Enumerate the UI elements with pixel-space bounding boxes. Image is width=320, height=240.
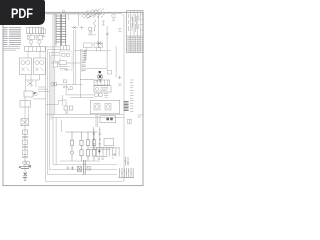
power stage top rail	[65, 131, 97, 133]
bottom center cluster small box with X	[67, 166, 82, 171]
heater X mark	[65, 111, 69, 115]
left chain top cluster	[24, 91, 33, 97]
driver block ticks	[101, 87, 109, 90]
terminal strip rungs	[83, 50, 87, 62]
small symbols top middle	[72, 21, 105, 30]
connector pin list lower rows	[4, 46, 21, 50]
tap L-wire 1	[46, 47, 61, 181]
breaker stub wire	[42, 34, 46, 37]
transistor block cells	[100, 148, 103, 157]
choke coil L2	[94, 20, 96, 32]
capacitor marks mid right	[83, 61, 86, 71]
connector pin list text block	[4, 27, 22, 44]
feed wire drop 1	[52, 14, 54, 165]
transistor block dark dot	[98, 150, 100, 152]
title block vertical text column D	[138, 15, 140, 29]
heater supply box b	[69, 106, 73, 110]
power rail bottom b	[60, 160, 100, 162]
chain element E4 mate	[26, 161, 30, 165]
title block cell divider row 2	[141, 19, 144, 21]
long wire rail mid a	[46, 113, 124, 115]
output stage lower box	[100, 116, 116, 123]
title block vertical text column C	[135, 14, 138, 32]
earth symbol left of combs	[112, 153, 116, 158]
corridor component pair	[51, 83, 54, 86]
bias box	[107, 70, 111, 74]
junction dot dark	[99, 71, 101, 73]
diagonal jumper wire	[87, 12, 103, 19]
title block revision table grid	[127, 36, 144, 53]
lower right transistor pair circles	[94, 93, 98, 97]
tap L-wire 3	[49, 53, 60, 170]
Q2 dark base blob	[99, 76, 101, 78]
tap L-wire 4	[51, 55, 60, 120]
bridge rectifier X	[21, 119, 29, 126]
driver row ticks	[98, 80, 108, 85]
crossover junction X	[27, 81, 33, 86]
driver block box	[94, 86, 111, 92]
driver row box	[94, 80, 109, 85]
fuse circle F1	[29, 40, 32, 43]
aux box lower marks	[59, 67, 70, 71]
small breaker box under badge corner	[42, 29, 46, 34]
indicator circle near frame	[112, 14, 116, 18]
power output column 1	[70, 132, 73, 161]
output stage inner circle a	[95, 105, 99, 109]
mains input box inner ticks	[30, 28, 42, 34]
chain bottom cluster	[19, 165, 31, 180]
title block cell divider row 3	[141, 23, 144, 25]
wire corner to bias box	[86, 68, 108, 70]
capacitor on wire b	[106, 33, 109, 35]
output lower dark rect b	[110, 118, 113, 121]
heater feed wire	[62, 95, 66, 106]
relay RL1 coil circle b	[26, 60, 30, 64]
title block cell divider row 4	[141, 29, 144, 31]
upper separator rail	[74, 50, 111, 52]
sheet outer border frame	[3, 12, 143, 185]
corridor vertical extra b	[61, 120, 63, 132]
chain element E3	[23, 150, 28, 155]
title block column line 2	[133, 11, 135, 53]
long vertical wire a	[98, 14, 100, 48]
rectifier box 2	[94, 43, 103, 48]
left chain cluster circle	[34, 92, 38, 96]
dense connector stripes	[124, 102, 129, 111]
transistor Q2 with arrow	[97, 74, 103, 80]
pilot lamp circle 2	[87, 15, 90, 18]
title block parts list text column	[130, 80, 134, 111]
pilot lamp circle	[83, 15, 86, 18]
long vertical wire c	[115, 46, 117, 78]
fan wires right	[107, 148, 120, 157]
driver block circle	[95, 87, 98, 90]
wires from choke to relays	[28, 51, 40, 58]
bottom small boxes right of cluster	[87, 167, 91, 171]
short drop from rail	[68, 14, 78, 26]
secondary tap box below transformer	[61, 46, 70, 50]
sheet note mark near right border	[138, 115, 143, 117]
power output column 3	[86, 132, 89, 161]
short rail right column	[88, 34, 96, 36]
title block cell divider row 1	[141, 14, 144, 16]
power rail bottom a	[53, 164, 117, 166]
link wire chain to corridor	[33, 98, 46, 100]
relay RL1 coil circle a	[21, 60, 25, 64]
chain element E2	[23, 140, 28, 145]
feed wire drop 3	[55, 14, 57, 46]
left chain wire down	[25, 97, 29, 178]
chain element E1	[23, 130, 28, 135]
relay RL2 coil circle a	[35, 60, 39, 64]
chain element E2 cap	[22, 146, 28, 148]
power output column 2	[80, 132, 83, 161]
fuse circle F2	[38, 40, 41, 43]
wire rail lower right	[90, 148, 114, 150]
power output column 4	[92, 132, 95, 161]
left chain feed box	[20, 101, 31, 108]
heater supply box a	[64, 106, 68, 110]
polarity marks near frame	[118, 76, 121, 86]
connector comb row	[119, 168, 135, 178]
small box under boundary	[63, 80, 66, 83]
filter chain right mid column b	[99, 127, 101, 149]
relay box RL2	[34, 58, 46, 75]
small box right column	[89, 27, 92, 30]
transformer winding ladder T1 left	[56, 14, 61, 46]
line filter choke box L1	[25, 47, 46, 52]
transistor block box	[96, 148, 107, 157]
title block vertical text column B	[131, 15, 134, 31]
choke box ticks	[29, 47, 41, 52]
wires box to fuses	[31, 34, 39, 47]
small circle above rail	[62, 10, 65, 13]
transistor Q2 junction	[99, 75, 102, 82]
aux box inner rect a	[62, 53, 65, 56]
long wire rail mid b	[52, 116, 124, 118]
long vertical wire b	[106, 26, 108, 68]
chain element E1 cap	[22, 136, 28, 138]
enclosure bottom line 1	[46, 180, 124, 182]
output stage assembly box	[90, 100, 119, 113]
title block column line 3	[137, 11, 139, 53]
bus vertical d	[81, 49, 83, 72]
input filter box K1	[28, 35, 35, 39]
output stage inner box b	[105, 104, 111, 111]
tap L-wire 2	[48, 50, 61, 175]
relay RL1 contact marks	[22, 68, 30, 72]
auxiliary supply dashed box	[60, 51, 72, 70]
connector tick pair	[124, 157, 129, 166]
output stage inner box a	[94, 104, 100, 111]
transistor block X marks	[98, 158, 104, 161]
zener diode cluster D5	[97, 41, 103, 48]
chain element E4 circle	[23, 161, 27, 165]
link wires to corridor	[38, 87, 49, 91]
relay RL2 contact marks	[36, 68, 44, 72]
feed wire drop 2	[54, 14, 56, 114]
mid horizontal boundary wire	[56, 84, 83, 86]
wire pair output box to chains	[96, 114, 98, 127]
title block column line 4	[140, 11, 142, 53]
title block outline	[127, 11, 144, 53]
input filter box K2	[36, 35, 43, 39]
top rail wire	[46, 13, 102, 15]
bus vertical c	[79, 49, 81, 98]
chain element E3 cap	[22, 156, 28, 158]
aux box inner rect b	[66, 53, 69, 56]
small box pair at frame edge	[128, 119, 132, 123]
filter chain right mid column a	[93, 127, 95, 149]
enclosure bottom line 2	[48, 174, 118, 176]
inline component on feed wire	[53, 61, 57, 67]
wires merging below relays	[26, 75, 40, 92]
corridor branch L wire	[46, 100, 62, 104]
output lower dark rect a	[106, 118, 109, 121]
aux box motor circle	[59, 61, 66, 65]
enclosure bottom line 3	[49, 169, 117, 171]
transformer winding ladder T1 right	[61, 14, 65, 46]
lower right small marks	[104, 94, 108, 98]
relay RL2 coil circle b	[40, 60, 44, 64]
svg-text:PDF: PDF	[11, 5, 33, 21]
bridge rectifier X box	[21, 119, 29, 126]
PDF badge	[0, 0, 45, 25]
mains input terminal box	[27, 28, 44, 34]
small marks below Q2	[80, 80, 98, 83]
fuse circle right column	[89, 31, 92, 34]
bus wire pair vertical	[73, 30, 75, 85]
title block vertical text column A	[127, 14, 129, 31]
dark wire pair bottom center	[83, 160, 85, 175]
output stage inner circle b	[106, 105, 110, 109]
relay box RL1	[20, 58, 32, 75]
rectifier boxes row top right	[84, 43, 93, 48]
scribble annotation cluster	[86, 9, 105, 18]
corridor vertical extra a	[55, 117, 57, 164]
inner drawing frame	[5, 14, 125, 182]
regulator box lower right	[104, 139, 114, 146]
title block column line 1	[130, 11, 132, 53]
